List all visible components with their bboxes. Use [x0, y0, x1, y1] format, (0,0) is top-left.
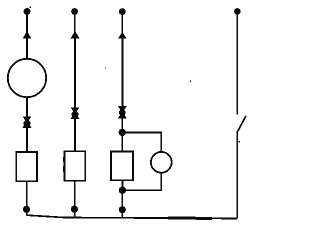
- node T2 (top terminal, branch 2): [71, 8, 78, 15]
- speck: [190, 80, 191, 81]
- node T1 (top terminal, branch 1): [24, 8, 31, 15]
- node T4 (top terminal, branch 4): [234, 8, 241, 15]
- valve V1 (bowtie): [22, 116, 31, 128]
- wire: [74, 38, 76, 108]
- switch S1 blade: [237, 116, 246, 133]
- valve V3 (bowtie): [118, 106, 127, 119]
- wire: [122, 38, 124, 106]
- component box B2: [64, 151, 85, 180]
- wire: [236, 13, 238, 115]
- wire: [26, 181, 28, 215]
- wire (branch to gauge, top run): [122, 132, 161, 152]
- wire (bottom bus ink blotch): [168, 217, 212, 220]
- wire: [26, 39, 28, 60]
- speck: [30, 6, 32, 8]
- wire (branch from gauge, bottom run): [122, 173, 161, 191]
- wire: [121, 132, 123, 152]
- component box B3: [111, 152, 133, 181]
- wire: [74, 119, 76, 152]
- gauge circle G1: [151, 152, 172, 173]
- wire: [236, 133, 238, 219]
- check-valve arrow A2: [71, 31, 80, 38]
- wire: [121, 13, 123, 33]
- speck: [105, 67, 106, 68]
- wire: [26, 128, 28, 153]
- junction node J4: [119, 187, 126, 194]
- junction node J3: [119, 129, 126, 136]
- pump/instrument circle P1: [8, 59, 46, 97]
- wire: [26, 97, 28, 117]
- check-valve arrow A1: [23, 31, 32, 39]
- node T3 (top terminal, branch 3): [119, 8, 126, 15]
- box B2 left-edge tick marks: [63, 157, 65, 172]
- junction node J5: [119, 206, 126, 213]
- junction node J2: [71, 206, 78, 213]
- wire: [26, 13, 28, 32]
- junction node J1: [23, 206, 30, 213]
- check-valve arrow A3: [118, 32, 127, 39]
- wire: [74, 13, 76, 32]
- wire: [121, 180, 123, 190]
- wire (bottom bus): [27, 215, 238, 218]
- valve V2 (bowtie): [70, 107, 79, 119]
- component box B1: [16, 152, 37, 181]
- wire: [121, 190, 123, 218]
- wire: [121, 118, 123, 133]
- speck: [239, 141, 240, 142]
- wire: [74, 181, 76, 218]
